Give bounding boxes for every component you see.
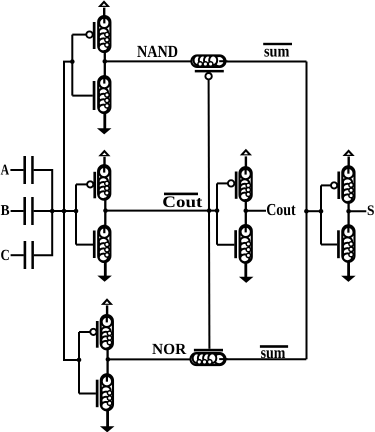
svg-text:sum: sum bbox=[264, 42, 290, 61]
wire drain chain (Cout-bar pair) bbox=[104, 198, 106, 233]
svg-text:B: B bbox=[1, 203, 10, 219]
n-type pass SET (sum path, bottom) body bbox=[191, 353, 226, 365]
junction dot Cout pair input bbox=[215, 208, 220, 213]
svg-text:Cout: Cout bbox=[162, 194, 203, 211]
ground arrow (S pair) bbox=[343, 276, 355, 281]
junction dot S pair input bbox=[319, 209, 324, 214]
p-type pass gate bubble (top) bbox=[205, 73, 211, 79]
p-type SET (NOR pull-up) body bbox=[101, 315, 113, 349]
p-type gate bubble (Cout-bar) bbox=[87, 181, 93, 187]
ground stem (Cout pair) bbox=[244, 263, 247, 277]
junction dot NAND output bbox=[103, 59, 108, 64]
p-type SET (S pull-up) gate bar bbox=[337, 172, 340, 200]
wire drain chain (NOR pair) bbox=[106, 347, 108, 381]
p-type SET (Cout pull-up) gate bar bbox=[235, 172, 238, 199]
capacitor CB (input B) bbox=[23, 197, 26, 225]
n-type SET (Cout pull-down) gate bar bbox=[234, 230, 237, 258]
wire drain chain (S pair) bbox=[347, 201, 349, 233]
label sum-bar (bottom) bbox=[260, 345, 288, 348]
wire gate of Cout pull-down bbox=[217, 244, 234, 246]
wire capacitor CB to summing node and common gate line bbox=[34, 210, 76, 212]
svg-text:NAND: NAND bbox=[137, 42, 178, 61]
n-type SET (NOR pull-down) gate bar bbox=[96, 380, 99, 408]
wire gate of Cout-bar pull-up bbox=[76, 183, 87, 185]
junction dot Cout-bar pair input bbox=[74, 209, 79, 214]
ground arrow (NAND pair) bbox=[98, 129, 110, 134]
junction dot S output bbox=[346, 209, 351, 214]
wire S output stub bbox=[349, 210, 367, 212]
ground stem (S pair) bbox=[347, 262, 350, 277]
Vdd arrow (Cout inverter) bbox=[240, 149, 252, 156]
p-type SET (Cout-bar pull-up) body bbox=[98, 165, 110, 200]
Vdd arrow (Cout-bar inverter) bbox=[98, 150, 110, 157]
p-type pass SET gate bar (top) bbox=[195, 70, 224, 73]
wire input C to capacitor CC bbox=[11, 254, 24, 256]
ground arrow (NOR pair) bbox=[101, 427, 113, 432]
n-type SET (Cout-bar pull-down) body bbox=[98, 226, 110, 262]
wire input B to capacitor CB bbox=[11, 210, 24, 212]
n-type SET (NOR pull-down) body bbox=[101, 374, 113, 410]
wire gate of Cout-bar pull-down bbox=[76, 244, 93, 246]
p-type SET (NAND pull-up) body bbox=[98, 16, 110, 52]
capacitor CC (input C) bbox=[24, 241, 27, 269]
wire sum-bar top segment bbox=[226, 61, 307, 63]
p-type SET (NOR pull-up) gate bar bbox=[96, 321, 99, 348]
p-type pass SET (sum path, top) body bbox=[191, 55, 225, 67]
wire gate of S pull-up bbox=[321, 184, 331, 186]
n-type pass SET gate bar (bottom) bbox=[194, 349, 223, 352]
ground stem (NOR pair) bbox=[106, 410, 109, 427]
svg-text:S: S bbox=[367, 203, 375, 219]
junction dot Cout output bbox=[244, 208, 249, 213]
wire gate of NAND pull-down bbox=[72, 95, 92, 97]
gate line from Cout-bar to both pass SETs bbox=[208, 79, 211, 348]
junction dot NOR output bbox=[106, 357, 111, 362]
wire Cout output stub bbox=[246, 210, 266, 212]
capacitor CA (input A) bbox=[23, 156, 26, 184]
gate feed line (Cout pair) bbox=[216, 183, 218, 244]
gate feed line (NOR pair) bbox=[78, 332, 80, 394]
ground stem (Cout-bar pair) bbox=[104, 262, 107, 277]
p-type SET (Cout pull-up) body bbox=[240, 167, 252, 201]
n-type SET (Cout-bar pull-down) gate bar bbox=[93, 231, 96, 259]
p-type SET (S pull-up) body bbox=[342, 166, 354, 203]
n-type SET (NAND pull-down) body bbox=[98, 76, 110, 113]
p-type SET (NAND pull-up) gate bar bbox=[93, 22, 96, 49]
p-type gate bubble bbox=[86, 31, 92, 37]
wire NAND output to pass transistor bbox=[105, 60, 192, 62]
wire Cout-bar output bus bbox=[106, 210, 218, 212]
gate feed line (Cout-bar pair) bbox=[75, 184, 77, 244]
junction dot NAND pair input bbox=[70, 59, 75, 64]
wire drain chain (NAND pair) bbox=[104, 50, 106, 83]
wire gate of NOR pull-down bbox=[79, 393, 96, 395]
n-type SET (S pull-down) gate bar bbox=[337, 230, 340, 258]
wire sum-bar right vertical loop bbox=[306, 62, 308, 360]
p-type gate bubble (NOR) bbox=[90, 329, 96, 335]
wire drain chain (Cout pair) bbox=[245, 199, 247, 232]
wire capacitor CA to summing node bbox=[34, 170, 53, 211]
svg-text:C: C bbox=[1, 247, 10, 264]
n-type SET (Cout pull-down) body bbox=[240, 225, 252, 263]
ground arrow (Cout pair) bbox=[240, 277, 252, 282]
label sum-bar (top) bbox=[263, 43, 292, 45]
wire gate of NAND pull-up bbox=[72, 34, 86, 36]
common input line feeding the three left inverters bbox=[64, 62, 79, 360]
Vdd arrow (NOR inverter) bbox=[101, 298, 113, 305]
Vdd arrow (NAND inverter) bbox=[98, 0, 110, 7]
p-type gate bubble (S) bbox=[331, 182, 337, 188]
wire input A to capacitor CA bbox=[10, 169, 23, 171]
wire sum-bar to S-inverter input bbox=[306, 210, 321, 212]
p-type SET (Cout-bar pull-up) gate bar bbox=[93, 172, 96, 199]
svg-text:NOR: NOR bbox=[152, 341, 187, 358]
wire capacitor CC to summing node bbox=[34, 211, 52, 255]
junction dot sum-bar at S-inverter input bbox=[304, 209, 309, 214]
wire gate of Cout pull-up bbox=[217, 182, 228, 184]
wire NOR output to pass transistor bbox=[108, 358, 191, 360]
junction dot Cout-bar output bbox=[103, 208, 108, 213]
Vdd arrow (S inverter) bbox=[343, 149, 355, 156]
svg-text:Cout: Cout bbox=[266, 200, 296, 219]
ground arrow (Cout-bar pair) bbox=[99, 276, 111, 281]
junction dot common line at B row bbox=[62, 209, 67, 214]
wire sum-bar bottom segment bbox=[226, 358, 307, 360]
wire gate of NOR pull-up bbox=[79, 331, 90, 333]
svg-text:A: A bbox=[1, 162, 10, 178]
svg-text:sum: sum bbox=[261, 343, 286, 362]
n-type SET (NAND pull-down) gate bar bbox=[93, 81, 96, 110]
gate feed line (NAND pair) bbox=[71, 35, 73, 96]
n-type SET (S pull-down) body bbox=[342, 225, 354, 261]
junction dot summing node bbox=[50, 209, 55, 214]
gate feed line (S pair) bbox=[320, 185, 322, 244]
ground stem (NAND pair) bbox=[103, 113, 106, 129]
wire gate of S pull-down bbox=[321, 244, 337, 246]
junction dot gate line at Cout-bar bus bbox=[207, 208, 212, 213]
label Cout-bar bbox=[164, 193, 198, 196]
junction dot NOR pair input bbox=[77, 358, 82, 363]
p-type gate bubble (Cout) bbox=[228, 180, 234, 186]
